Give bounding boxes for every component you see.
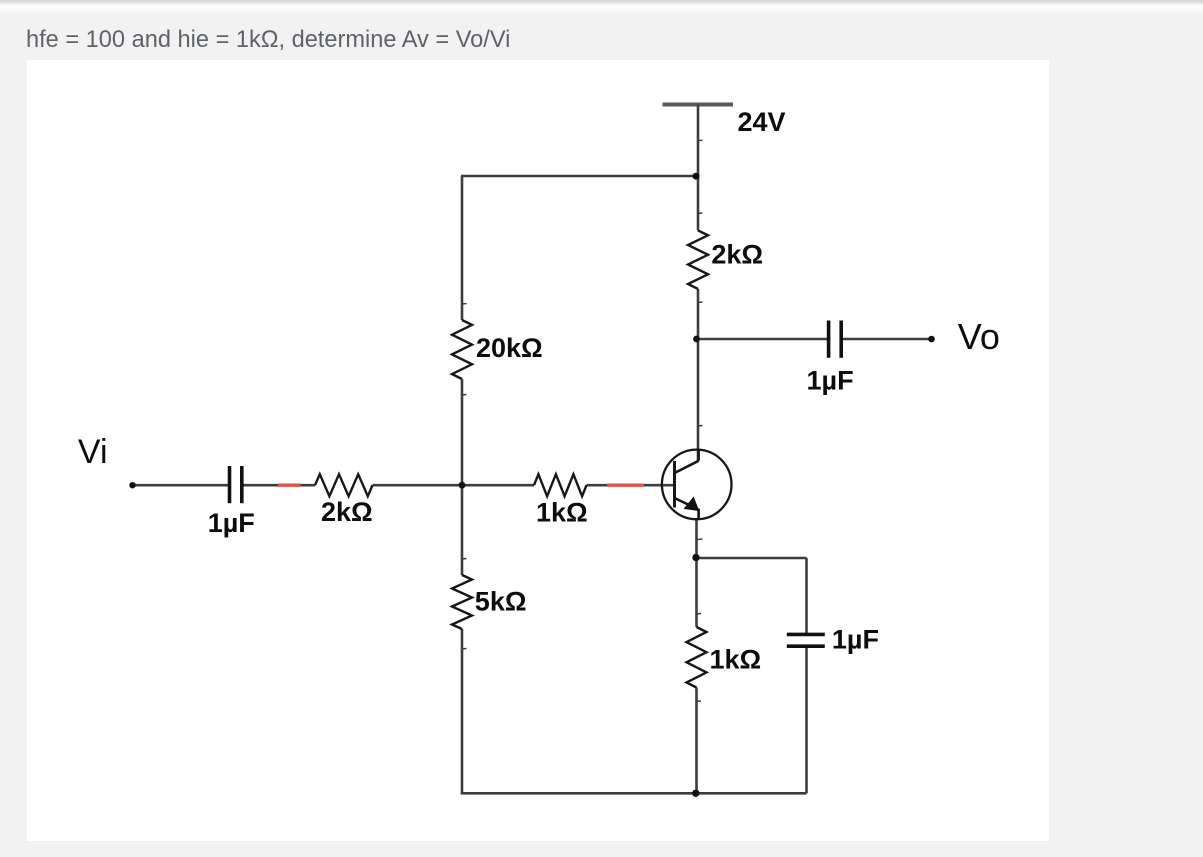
svg-text:5kΩ: 5kΩ xyxy=(475,587,527,617)
svg-text:1µF: 1µF xyxy=(807,365,854,395)
svg-text:20kΩ: 20kΩ xyxy=(476,333,543,363)
svg-text:1kΩ: 1kΩ xyxy=(710,645,762,675)
svg-text:2kΩ: 2kΩ xyxy=(321,497,373,527)
svg-text:Vi: Vi xyxy=(78,433,108,471)
svg-text:Vo: Vo xyxy=(958,316,1000,357)
svg-text:1µF: 1µF xyxy=(208,508,255,538)
svg-text:2kΩ: 2kΩ xyxy=(711,240,763,270)
svg-text:1µF: 1µF xyxy=(832,625,879,655)
svg-text:1kΩ: 1kΩ xyxy=(536,498,588,528)
svg-text:24V: 24V xyxy=(738,107,786,137)
